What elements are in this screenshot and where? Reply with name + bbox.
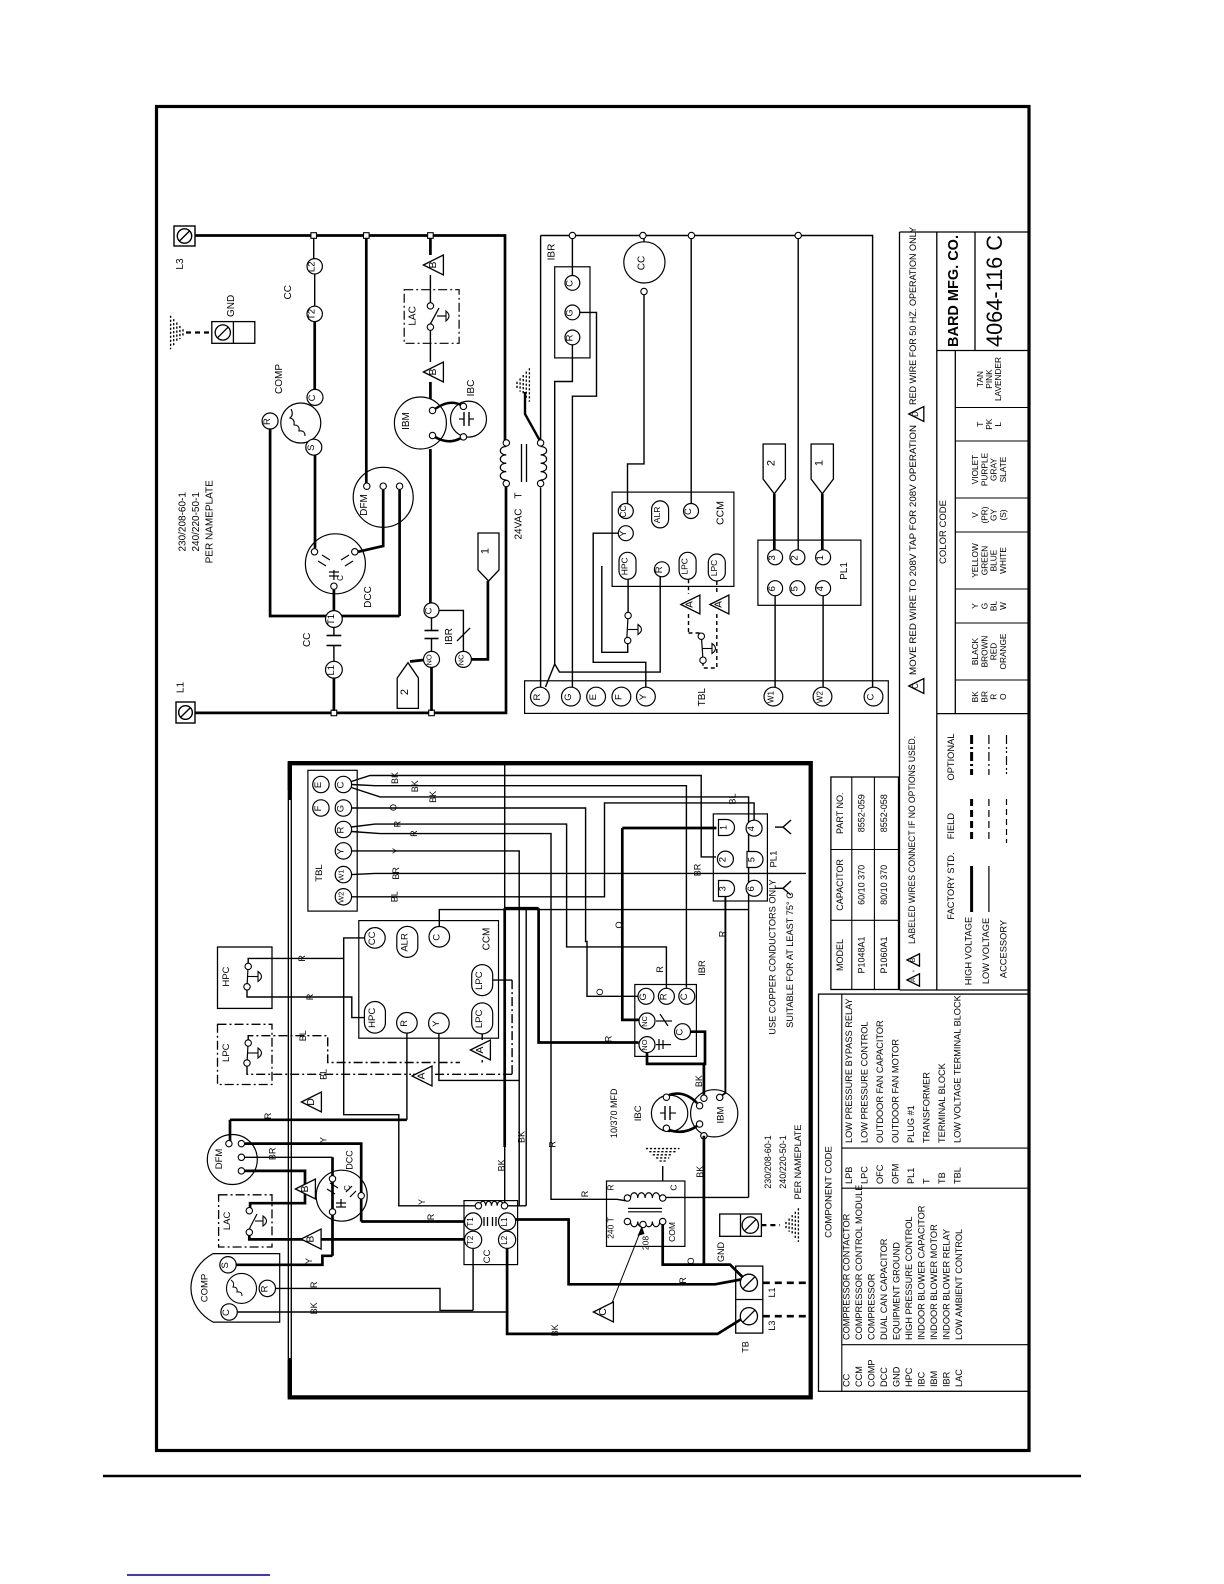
- CC2 L2: [499, 1231, 516, 1248]
- wire IBM through: [429, 449, 432, 603]
- wire Y CCM branch down: [439, 1034, 519, 1081]
- CC coil (lower): [480, 1201, 503, 1206]
- svg-text:C: C: [866, 694, 877, 701]
- svg-text:P1048A1: P1048A1: [857, 936, 867, 973]
- svg-text:F: F: [313, 805, 324, 811]
- wire BK from COMP C: [237, 1311, 507, 1313]
- component code group 2 codes: [844, 1164, 963, 1184]
- node on L3 bus at L2 branch: [311, 233, 317, 239]
- svg-text:BK: BK: [410, 780, 420, 792]
- terminal T primary top: [503, 440, 509, 446]
- svg-text:1: 1: [813, 460, 825, 466]
- terminal CC coil bottom: [641, 288, 647, 294]
- svg-text:O: O: [998, 693, 1008, 700]
- svg-text:E: E: [313, 782, 324, 788]
- svg-text:L3: L3: [767, 1321, 777, 1331]
- svg-text:C: C: [911, 683, 920, 689]
- TBL2 W2: [335, 889, 351, 905]
- svg-text:A: A: [685, 601, 696, 608]
- svg-text:BK: BK: [309, 1302, 319, 1314]
- svg-text:230/208-60-1: 230/208-60-1: [763, 1135, 773, 1189]
- svg-text:B: B: [300, 1185, 311, 1192]
- svg-text:G: G: [638, 993, 649, 1000]
- svg-text:CCM: CCM: [715, 501, 727, 525]
- PL2 pin1: [719, 820, 735, 836]
- triangle note B (top): [423, 255, 443, 275]
- svg-text:R: R: [409, 830, 419, 837]
- CCM2 Y: [429, 1013, 450, 1034]
- flag 2 (to PL1-2): [397, 663, 418, 709]
- contact L2 of CC: [307, 259, 322, 274]
- svg-text:DCC: DCC: [345, 1150, 355, 1170]
- svg-text:ALR: ALR: [652, 507, 662, 524]
- svg-text:NO: NO: [425, 654, 434, 665]
- svg-text:COMPRESSOR: COMPRESSOR: [867, 1273, 877, 1340]
- svg-text:CCM: CCM: [854, 1366, 864, 1387]
- contact bars CC: [327, 635, 342, 637]
- node on L1 bus at CC: [331, 710, 337, 716]
- terminal DFM 2: [380, 483, 386, 489]
- PL2 pin4: [746, 820, 762, 836]
- svg-text:Y: Y: [304, 1258, 314, 1264]
- flag 1 (to PL1-1): [478, 533, 499, 581]
- wire DFM2 to DCC F: [358, 490, 383, 552]
- svg-text:5: 5: [747, 857, 757, 862]
- svg-text:R: R: [678, 1277, 688, 1284]
- svg-text:R: R: [548, 1141, 558, 1148]
- terminal COMP R: [259, 1280, 275, 1296]
- svg-text:CC: CC: [636, 256, 647, 270]
- wire BK drop from common to coil: [525, 910, 527, 1206]
- node LV bus IBR: [569, 232, 575, 238]
- svg-text:2: 2: [717, 857, 728, 862]
- chassis ground (lower mid): [660, 1160, 666, 1162]
- wire LPC top right dashdot: [493, 979, 512, 981]
- svg-text:240/220-50-1: 240/220-50-1: [778, 1135, 788, 1189]
- terminal DFM2 4: [238, 1168, 244, 1174]
- contact L1 of CC: [326, 661, 343, 678]
- component code group 1 codes: [842, 1359, 965, 1387]
- wire bus to PL1-2: [797, 238, 799, 550]
- wire thick riser to CC L1: [503, 908, 506, 1147]
- wire pin4 to TBL W2: [822, 596, 824, 688]
- svg-text:Y: Y: [431, 1020, 442, 1027]
- svg-text:W: W: [998, 602, 1008, 610]
- wire HPC switch return: [602, 566, 628, 652]
- svg-text:DFM: DFM: [359, 494, 370, 516]
- svg-text:GND: GND: [226, 295, 237, 317]
- chassis ground (lower right): [785, 1222, 787, 1228]
- outdoor fan motor DFM (upper): [353, 467, 413, 527]
- svg-text:24VAC T: 24VAC T: [514, 492, 525, 539]
- svg-text:C: C: [668, 1184, 678, 1190]
- wire pin6 to TBL W1: [774, 596, 776, 688]
- terminal 240T 208: [640, 1221, 646, 1227]
- svg-text:COM: COM: [667, 1222, 677, 1242]
- svg-text:L3: L3: [175, 258, 186, 270]
- svg-text:CAPACITOR: CAPACITOR: [835, 859, 845, 911]
- svg-text:W2: W2: [336, 892, 345, 903]
- terminal DFM2 3: [238, 1154, 244, 1160]
- IBR2 C: [679, 988, 695, 1004]
- svg-text:BR: BR: [391, 867, 401, 880]
- PL2 pin2: [717, 851, 733, 867]
- wire IBR R to TBL R and CCM R: [546, 345, 573, 687]
- svg-text:4: 4: [815, 586, 826, 591]
- svg-text:O: O: [595, 988, 605, 995]
- svg-text:1: 1: [480, 548, 492, 554]
- svg-text:PL1: PL1: [769, 851, 780, 868]
- svg-text:GND: GND: [716, 1242, 726, 1263]
- svg-text:IBM: IBM: [929, 1371, 939, 1387]
- svg-text:60/10 370: 60/10 370: [857, 865, 867, 905]
- color code table header: [954, 351, 956, 714]
- TBL W2: [813, 687, 832, 706]
- svg-text:A: A: [416, 1072, 427, 1079]
- page border frame: [157, 107, 1030, 1451]
- svg-text:B: B: [428, 368, 439, 375]
- triangle note C (lower): [593, 1302, 613, 1322]
- LPC dashed switch (upper): [688, 614, 690, 633]
- wire CCM Y to TBL Y: [593, 533, 646, 687]
- svg-text:R: R: [606, 1184, 616, 1190]
- svg-text:CC: CC: [482, 1250, 493, 1264]
- wire DCC C to T1: [333, 590, 336, 611]
- svg-text:DCC: DCC: [879, 1367, 889, 1387]
- svg-text:S: S: [306, 445, 317, 451]
- svg-text:R: R: [655, 966, 665, 973]
- svg-text:W1: W1: [336, 869, 345, 880]
- svg-text:240/220-50-1: 240/220-50-1: [191, 492, 202, 552]
- svg-text:L1: L1: [500, 1217, 509, 1226]
- wire bus to CCM C: [690, 238, 692, 504]
- terminal DFM 3: [396, 483, 402, 489]
- svg-text:C: C: [431, 934, 442, 941]
- wire IBC-IBM jumper top: [669, 1094, 697, 1103]
- terminal T secondary top: [537, 440, 543, 446]
- indoor blower capacitor IBC (upper): [451, 401, 487, 437]
- wire HPC R bottom: [247, 990, 364, 1018]
- svg-text:C: C: [679, 993, 690, 1000]
- indoor blower motor IBM (upper): [394, 397, 446, 449]
- svg-text:INDOOR BLOWER RELAY: INDOOR BLOWER RELAY: [942, 1229, 952, 1340]
- svg-text:IBC: IBC: [917, 1371, 927, 1387]
- svg-text:TBL: TBL: [697, 688, 708, 707]
- terminal IBC2 bottom: [663, 1125, 669, 1131]
- 240T secondary: [631, 1222, 660, 1227]
- wire DFM branch rail: [365, 238, 368, 483]
- svg-text:COLOR CODE: COLOR CODE: [938, 500, 949, 564]
- wire pin3 R to IBM: [720, 897, 726, 1098]
- svg-text:HPC: HPC: [904, 1367, 914, 1387]
- node on L3 bus at DFM branch: [364, 233, 370, 239]
- compressor control module CCM (upper): [612, 492, 734, 586]
- svg-text:10/370 MFD: 10/370 MFD: [609, 1088, 619, 1138]
- wire border drop to contactor: [504, 765, 506, 908]
- svg-text:(S): (S): [998, 509, 1008, 520]
- triangle note D (lower): [301, 1092, 321, 1112]
- svg-text:RED WIRE FOR 50 HZ. OPERATION: RED WIRE FOR 50 HZ. OPERATION ONLY: [908, 227, 918, 405]
- triangle note A (lower 2): [412, 1066, 432, 1086]
- pin 4: [816, 581, 831, 596]
- wire BK1 TBL C to PL1-2: [351, 776, 716, 857]
- TBL2 R: [335, 821, 351, 837]
- TBL E: [587, 687, 606, 706]
- svg-text:LAC: LAC: [954, 1369, 964, 1387]
- svg-text:A: A: [910, 977, 917, 982]
- svg-text:IBC: IBC: [633, 1105, 644, 1121]
- terminal DFM2 2: [238, 1140, 244, 1146]
- svg-text:R: R: [335, 826, 346, 833]
- fork lower: [775, 887, 783, 889]
- wire LPC BL bottom: [247, 1067, 411, 1075]
- compressor COMP (lower): [191, 1254, 280, 1323]
- wire CCM C common: [439, 910, 748, 927]
- svg-text:R: R: [262, 418, 273, 425]
- wire CC coil to CCM CC: [628, 295, 645, 504]
- svg-text:BL: BL: [727, 793, 737, 804]
- IBR2 G: [638, 988, 654, 1004]
- svg-text:R: R: [654, 566, 665, 573]
- svg-text:O: O: [686, 1257, 696, 1264]
- svg-text:G: G: [335, 805, 346, 812]
- svg-text:SLATE: SLATE: [998, 456, 1008, 482]
- wire L2 BK to TB L3: [507, 1249, 741, 1334]
- wire HPC switch leg: [627, 579, 629, 612]
- svg-text:MODEL: MODEL: [835, 939, 845, 971]
- transformer T 24VAC secondary: [541, 447, 547, 481]
- terminal IBM2 l2: [696, 1121, 702, 1127]
- wire L2-T2: [314, 274, 316, 306]
- wire secondary top to LV bus: [540, 236, 542, 440]
- svg-text:PER NAMEPLATE: PER NAMEPLATE: [793, 1125, 803, 1200]
- terminal C of COMP: [307, 389, 323, 405]
- svg-text:W2: W2: [816, 691, 825, 704]
- svg-text:R: R: [399, 1020, 410, 1027]
- svg-text:L2: L2: [307, 262, 318, 273]
- terminal IBC a: [460, 403, 466, 409]
- svg-text:COMP: COMP: [274, 364, 285, 394]
- wire IBM bottom BK: [703, 1136, 706, 1265]
- wire HPC R top: [248, 958, 344, 963]
- svg-text:Y: Y: [417, 1199, 427, 1205]
- terminal DCC2 C: [358, 1193, 364, 1199]
- svg-text:2: 2: [399, 689, 411, 695]
- triangle note A (upper right): [710, 595, 729, 614]
- model table box: [831, 777, 899, 990]
- svg-text:A: A: [714, 601, 725, 608]
- svg-text:R: R: [297, 955, 307, 962]
- svg-text:EQUIPMENT GROUND: EQUIPMENT GROUND: [892, 1242, 902, 1340]
- wire NO to L1 bus: [430, 667, 433, 711]
- svg-text:8552-059: 8552-059: [857, 794, 867, 832]
- terminal CCM LPC 2: [708, 554, 725, 581]
- svg-text:BK: BK: [428, 791, 438, 803]
- svg-text:S: S: [220, 1262, 231, 1268]
- PL2 pin5: [747, 852, 763, 868]
- svg-text:LOW VOLTAGE TERMINAL BLOCK: LOW VOLTAGE TERMINAL BLOCK: [953, 994, 963, 1143]
- svg-text:HPC: HPC: [367, 1008, 378, 1028]
- svg-text:R: R: [604, 1035, 614, 1042]
- svg-text:LPC: LPC: [474, 971, 485, 990]
- terminal S of COMP: [306, 439, 322, 455]
- svg-text:R: R: [309, 1281, 319, 1288]
- TBL F: [612, 687, 631, 706]
- relay contact IBR C (upper): [424, 603, 439, 618]
- svg-text:R: R: [658, 993, 669, 1000]
- terminal IBM2 aux: [717, 1094, 723, 1100]
- svg-text:LOW PRESSURE CONTROL: LOW PRESSURE CONTROL: [860, 1022, 870, 1144]
- svg-text:C: C: [221, 1309, 232, 1316]
- svg-text:IBM: IBM: [401, 412, 412, 430]
- terminal IBC2 top: [663, 1094, 669, 1100]
- indoor blower motor IBM (lower): [691, 1090, 738, 1137]
- wire CCM LPC dashed drops: [688, 579, 690, 594]
- svg-text:1: 1: [719, 825, 729, 830]
- TBL W1: [764, 687, 783, 706]
- svg-text:LOW VOLTAGE: LOW VOLTAGE: [981, 918, 991, 984]
- low pressure control LPC (lower): [218, 1024, 273, 1084]
- svg-text:HIGH PRESSURE CONTROL: HIGH PRESSURE CONTROL: [904, 1216, 914, 1340]
- terminal COMP S: [220, 1257, 236, 1273]
- PL2 pin6: [746, 880, 762, 896]
- svg-text:C: C: [683, 508, 694, 515]
- svg-text:4064-116 C: 4064-116 C: [982, 235, 1007, 347]
- terminal CCM Y: [618, 526, 633, 541]
- svg-text:LOW PRESSURE BYPASS RELAY: LOW PRESSURE BYPASS RELAY: [844, 998, 854, 1143]
- svg-text:F: F: [613, 694, 624, 700]
- svg-text:A: A: [475, 1046, 486, 1053]
- HPC pressure switch (upper): [625, 612, 631, 618]
- wire R1 TBL R to IBR R: [351, 824, 666, 988]
- svg-text:80/10 370: 80/10 370: [879, 865, 889, 905]
- svg-text:P1060A1: P1060A1: [879, 936, 889, 973]
- terminal 240T 240: [624, 1218, 630, 1224]
- wire CC from CCM to CC coil: [344, 938, 479, 1206]
- svg-text:IBR: IBR: [547, 244, 558, 261]
- TBL2 C: [335, 776, 351, 792]
- IBR2 contacts: [656, 1020, 672, 1022]
- IBR2 NO: [639, 1037, 655, 1053]
- flag 1 above PL1: [811, 444, 833, 494]
- svg-text:L: L: [993, 422, 1003, 427]
- plug PL1 (lower): [713, 814, 767, 901]
- node LV bus CC coil: [640, 232, 646, 238]
- terminal DFM 1: [364, 483, 370, 489]
- svg-text:FIELD: FIELD: [946, 813, 956, 840]
- svg-text:D: D: [306, 1098, 317, 1106]
- contact T2 of CC: [307, 306, 322, 321]
- svg-text:BK: BK: [496, 1159, 506, 1171]
- svg-text:R: R: [426, 1213, 436, 1220]
- CCM2 LPC top: [472, 965, 493, 996]
- wire R CCM branch down: [406, 1031, 408, 1120]
- wire IBR C to NC branch: [439, 610, 463, 651]
- svg-text:LPC: LPC: [860, 1166, 870, 1184]
- svg-text:Y: Y: [638, 693, 649, 700]
- plug PL1 (upper): [758, 540, 861, 605]
- wire BL TBL W2 to PL1-4: [352, 803, 754, 897]
- transformer T 24VAC primary: [500, 447, 506, 481]
- svg-text:T2: T2: [307, 309, 318, 320]
- terminal T secondary bottom: [537, 480, 543, 486]
- contactor CC (lower): [464, 1201, 518, 1265]
- title block outer box: [900, 231, 1029, 233]
- svg-text:TERMINAL BLOCK: TERMINAL BLOCK: [937, 1062, 947, 1143]
- terminal DCC H: [311, 549, 317, 555]
- footer link underline: [127, 1574, 270, 1576]
- CCM2 R: [397, 1013, 418, 1034]
- terminal CCM HPC: [619, 552, 636, 579]
- svg-text:R: R: [564, 334, 575, 341]
- svg-text:TBL: TBL: [953, 1167, 963, 1184]
- indoor blower relay IBR (upper box): [555, 267, 590, 358]
- low ambient control LAC (upper): [404, 290, 459, 344]
- component code group 1 descriptions: [842, 1185, 965, 1340]
- svg-text:LPC: LPC: [709, 560, 719, 577]
- terminal block TB: [736, 1266, 763, 1333]
- svg-text:BR: BR: [268, 1147, 278, 1160]
- svg-text:LAVENDER: LAVENDER: [993, 357, 1003, 401]
- svg-text:IBR: IBR: [444, 628, 455, 645]
- svg-text:230/208-60-1: 230/208-60-1: [178, 492, 189, 552]
- terminal DCC2 F: [329, 1209, 335, 1215]
- svg-text:R: R: [305, 993, 315, 1000]
- CCM2 LPC bottom: [472, 1003, 493, 1034]
- outdoor fan motor DFM (lower): [207, 1135, 257, 1185]
- node LV bus PL1-2: [795, 232, 801, 238]
- fork upper: [775, 826, 783, 828]
- svg-text:BK: BK: [695, 1166, 705, 1178]
- svg-text:PER NAMEPLATE: PER NAMEPLATE: [205, 480, 216, 563]
- svg-text:C: C: [598, 1308, 609, 1316]
- transformer 240T box: [607, 1181, 685, 1246]
- unit schematic border: [290, 763, 811, 1397]
- wire bus to IBR C: [571, 238, 573, 276]
- contactor coil CC (upper): [643, 238, 645, 242]
- svg-text:E: E: [588, 694, 599, 700]
- TBL C: [864, 687, 883, 706]
- wire flag2 to NO: [410, 660, 423, 662]
- svg-text:LABELED WIRES CONNECT IF NO OP: LABELED WIRES CONNECT IF NO OPTIONS USED…: [907, 736, 917, 944]
- svg-text:C: C: [424, 607, 435, 614]
- svg-text:COMP: COMP: [200, 1274, 211, 1303]
- terminal 240T com: [660, 1218, 666, 1224]
- dashed GND lead: [761, 1224, 780, 1226]
- svg-text:R: R: [532, 694, 543, 701]
- svg-text:D: D: [911, 411, 920, 417]
- svg-text:GND: GND: [892, 1366, 902, 1387]
- svg-text:208: 208: [640, 1236, 650, 1250]
- svg-text:CC: CC: [367, 931, 378, 945]
- svg-text:BARD MFG. CO.: BARD MFG. CO.: [945, 235, 962, 347]
- leader 208 tap arrow: [612, 1228, 642, 1303]
- svg-text:LPC: LPC: [474, 1010, 485, 1029]
- wire NC to flag 1: [471, 581, 488, 659]
- triangle note B (lower LAC): [301, 1229, 321, 1249]
- svg-text:BR: BR: [693, 863, 703, 876]
- 50Hz tap lever wire: [525, 392, 540, 440]
- svg-text:LAC: LAC: [222, 1212, 233, 1231]
- flag 2 above PL1: [763, 444, 785, 494]
- svg-text:LOW AMBIENT CONTROL: LOW AMBIENT CONTROL: [954, 1229, 964, 1340]
- TBL R: [531, 687, 550, 706]
- wire BR TBL W1 to PL1-3 area: [352, 873, 806, 874]
- wire secondary bottom to TBL R: [540, 488, 542, 688]
- svg-text:BL: BL: [298, 1030, 308, 1041]
- svg-text:Y: Y: [618, 530, 629, 537]
- svg-text:PLUG #1: PLUG #1: [906, 1105, 916, 1143]
